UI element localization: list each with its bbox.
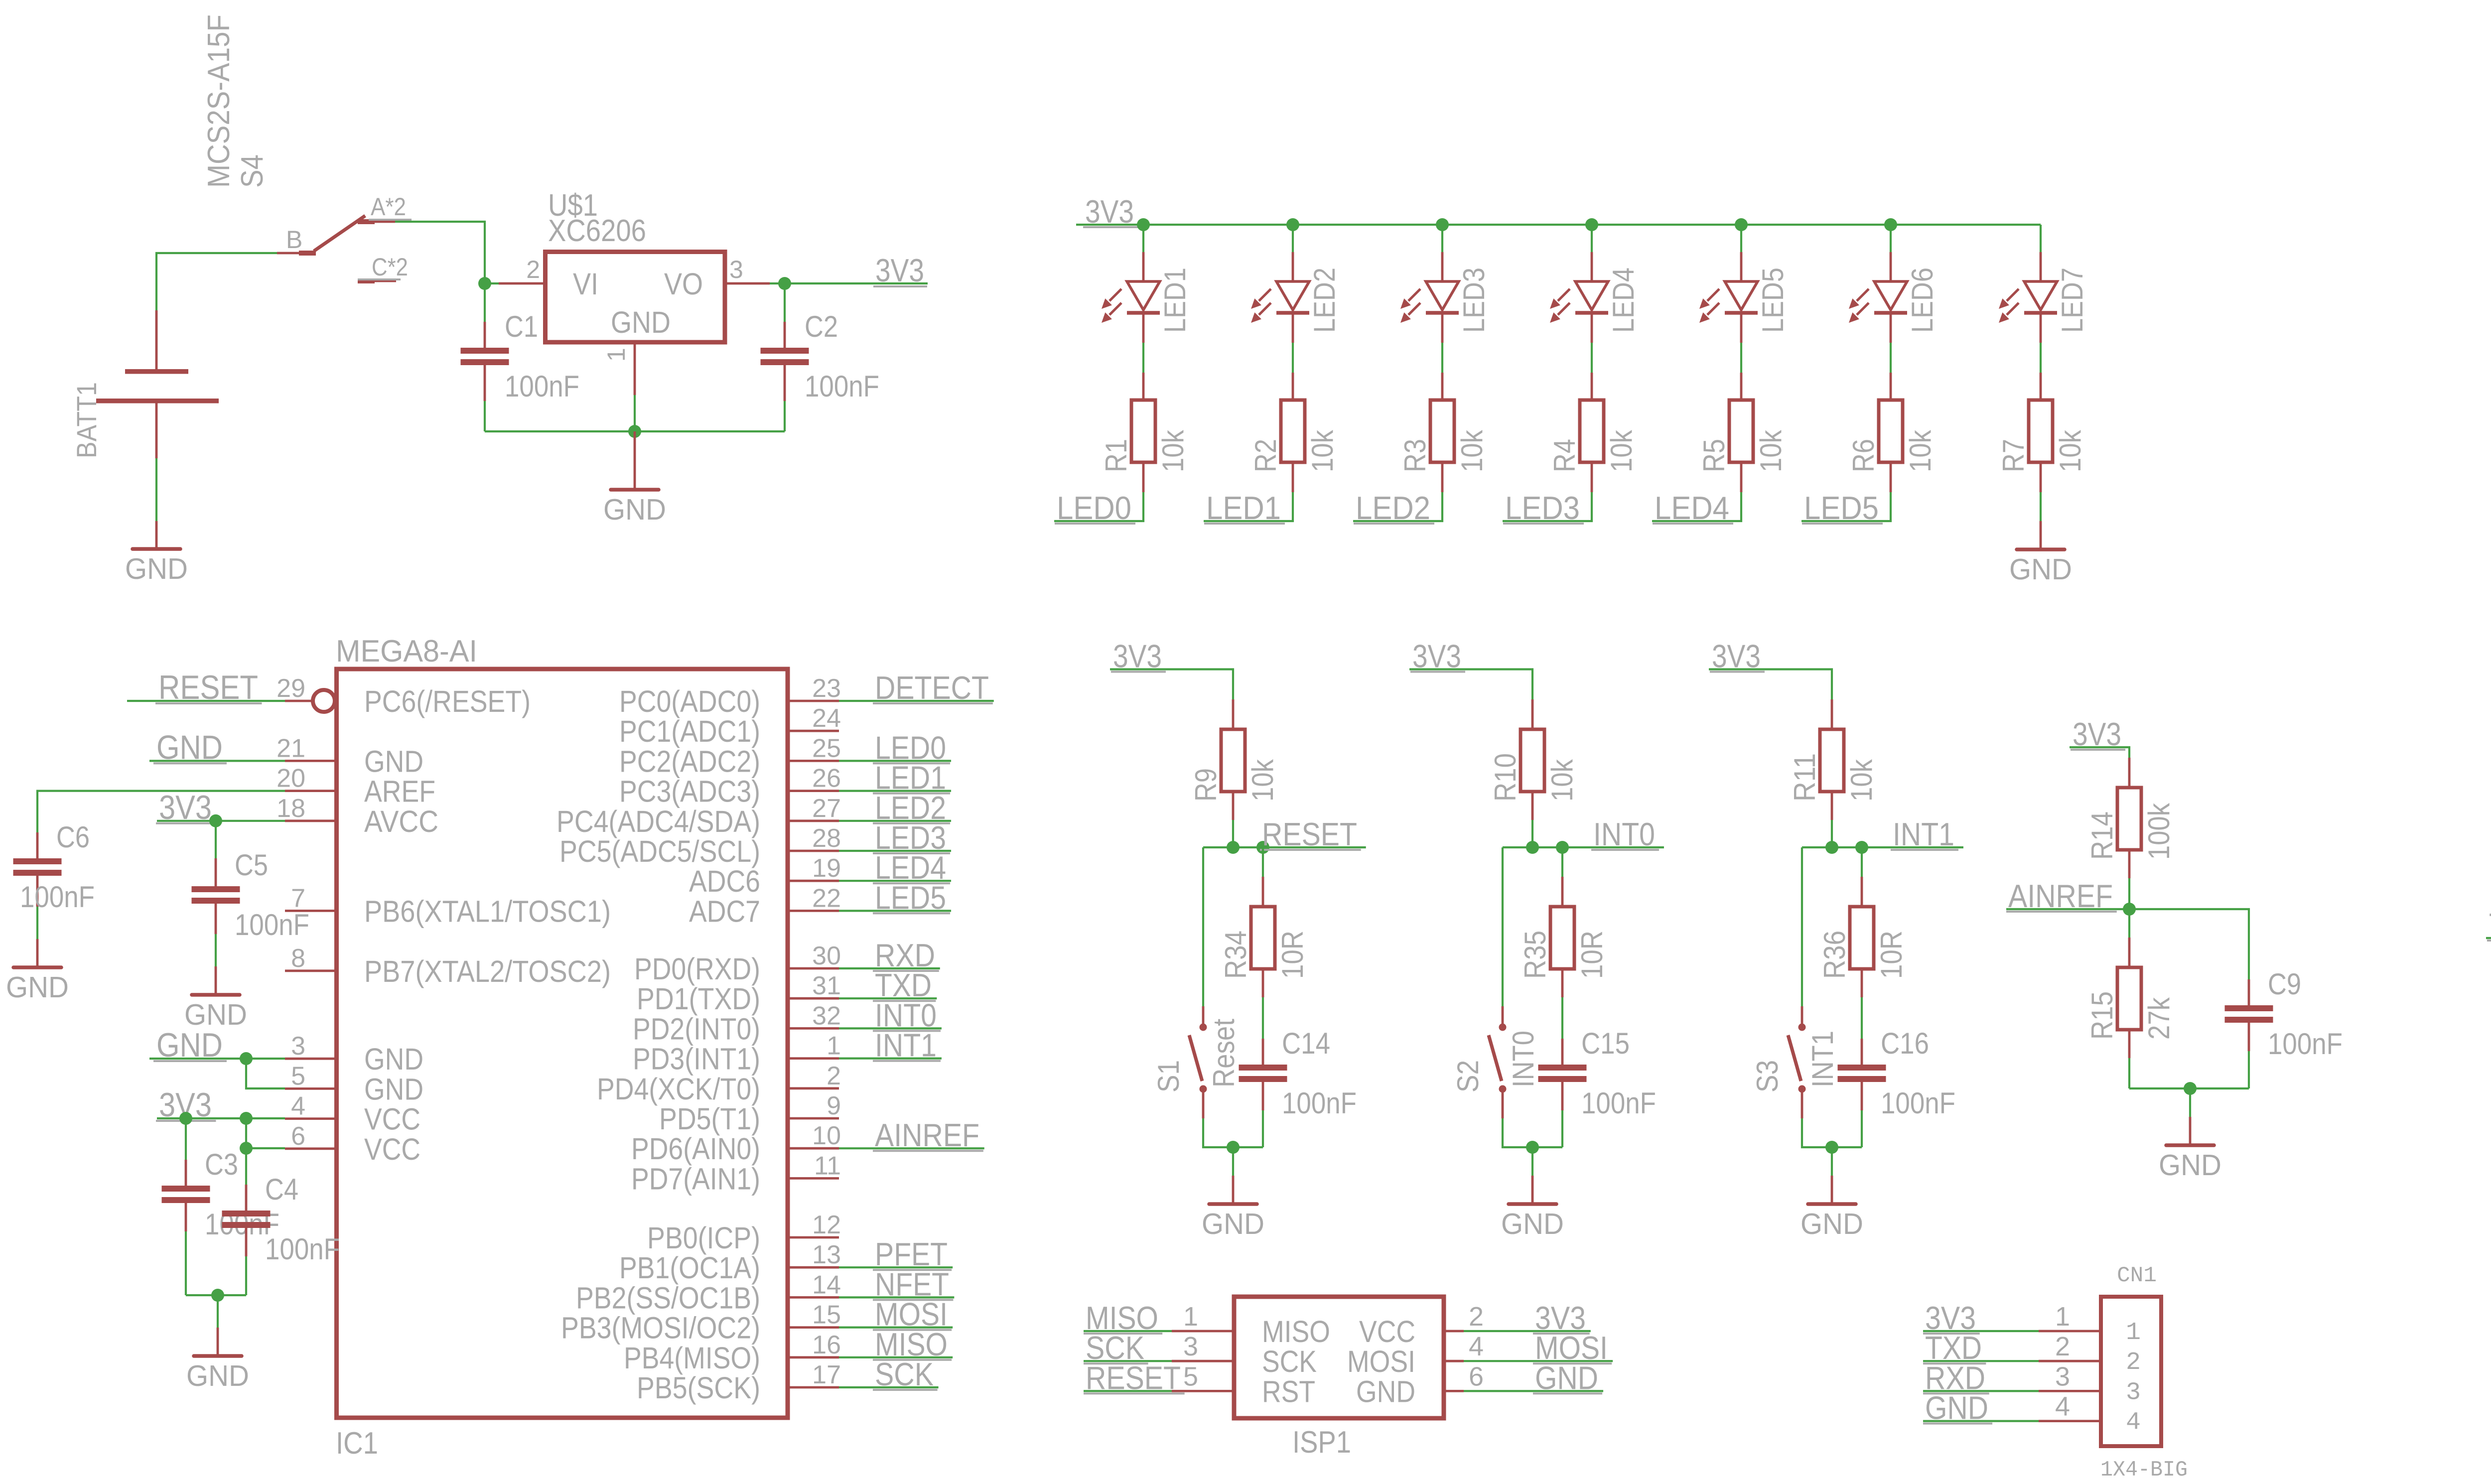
IC1 pin 32 PD2(INT0) (633, 1001, 841, 1046)
svg-text:INT1: INT1 (1806, 1031, 1839, 1087)
net label INT1 (839, 1027, 942, 1064)
wire to pin 5 (246, 1059, 285, 1088)
svg-text:PB7(XTAL2/TOSC2): PB7(XTAL2/TOSC2) (364, 954, 611, 988)
IC1 pin 30 PD0(RXD) (634, 942, 841, 986)
wire rail to ground S1 (1232, 1147, 1234, 1176)
svg-text:PD3(INT1): PD3(INT1) (633, 1042, 760, 1076)
net label LED4 (1653, 490, 1733, 526)
junction rail LED3 (1436, 218, 1449, 231)
svg-text:MCS2S-A15F: MCS2S-A15F (202, 14, 236, 188)
svg-text:C16: C16 (1881, 1027, 1929, 1060)
svg-text:15: 15 (812, 1301, 841, 1330)
wire R1 to net LED0 (1054, 492, 1143, 521)
svg-text:3: 3 (729, 256, 743, 283)
wire C9 to rail (2248, 1051, 2250, 1088)
wire LED2 to R2 (1292, 343, 1294, 373)
svg-text:2: 2 (2126, 1349, 2141, 1377)
wire R10 to node (1531, 820, 1533, 847)
net label LED0 (1055, 490, 1135, 526)
net label THELED left (2486, 907, 2491, 943)
svg-text:11: 11 (814, 1151, 841, 1180)
svg-text:10k: 10k (1904, 429, 1937, 472)
svg-text:R10: R10 (1489, 753, 1522, 802)
battery BATT1 (71, 310, 219, 458)
resistor R5 (1697, 373, 1788, 492)
svg-text:18: 18 (277, 794, 305, 823)
switch S3 (1751, 1006, 1839, 1118)
svg-text:LED3: LED3 (1505, 490, 1580, 526)
ISP1 pin 3 SCK (1172, 1332, 1317, 1378)
svg-text:GND: GND (1501, 1208, 1564, 1240)
IC1 pin 4 VCC (285, 1092, 420, 1136)
svg-text:PD6(AIN0): PD6(AIN0) (631, 1132, 760, 1166)
svg-text:10k: 10k (2054, 429, 2087, 472)
wire 3V3 to R14 (2070, 747, 2129, 758)
resistor R7 (1997, 373, 2087, 492)
net label GND pin21 (149, 728, 285, 766)
junction rail S1 (1227, 1141, 1240, 1154)
svg-text:C14: C14 (1282, 1027, 1330, 1060)
svg-text:C9: C9 (2268, 967, 2301, 1001)
svg-text:VCC: VCC (364, 1132, 420, 1166)
net label 3V3 CN1 (1923, 1300, 2039, 1336)
svg-text:8: 8 (291, 944, 305, 973)
svg-text:3: 3 (2126, 1378, 2141, 1407)
junction VCC C3 (179, 1112, 192, 1125)
svg-text:PD7(AIN1): PD7(AIN1) (631, 1162, 760, 1196)
ground GND C3 C4 (186, 1328, 249, 1392)
IC1 pin 31 PD1(TXD) (637, 971, 841, 1016)
wire rail to LED1 (1142, 225, 1144, 252)
IC1 pin 28 PC5(ADC5/SCL) (559, 824, 841, 868)
resistor R34 (1219, 847, 1309, 997)
svg-text:10k: 10k (1605, 429, 1638, 472)
svg-text:1: 1 (2126, 1319, 2141, 1347)
svg-text:ISP1: ISP1 (1292, 1425, 1351, 1460)
ground GND C6 (6, 939, 69, 1004)
svg-text:AREF: AREF (364, 775, 435, 809)
svg-text:31: 31 (812, 971, 841, 1000)
svg-text:MISO: MISO (1262, 1315, 1330, 1349)
svg-text:LED3: LED3 (1457, 268, 1491, 333)
switch S4 (202, 14, 412, 281)
capacitor C2 (761, 283, 880, 403)
net label AINREF node (2006, 878, 2129, 914)
svg-text:R5: R5 (1697, 439, 1731, 472)
IC1 pin 10 PD6(AIN0) (631, 1121, 841, 1166)
svg-text:CN1: CN1 (2117, 1263, 2157, 1288)
svg-text:GND: GND (1202, 1208, 1264, 1240)
wire switch A to regulator input (395, 222, 485, 283)
resistor R10 (1489, 699, 1579, 820)
resistor R2 (1249, 373, 1339, 492)
svg-text:RST: RST (1262, 1374, 1315, 1408)
capacitor C6 (13, 820, 95, 914)
IC IC1 MEGA8-AI outline (336, 634, 788, 1461)
svg-text:GND: GND (186, 1359, 249, 1392)
svg-text:PC1(ADC1): PC1(ADC1) (619, 714, 760, 748)
svg-text:R11: R11 (1788, 753, 1821, 802)
svg-text:100nF: 100nF (1881, 1086, 1955, 1120)
net label INT1 (1862, 816, 1963, 852)
svg-text:PB3(MOSI/OC2): PB3(MOSI/OC2) (561, 1311, 760, 1345)
net label INT0 (839, 997, 942, 1033)
svg-text:27: 27 (812, 794, 841, 823)
net label AINREF (839, 1117, 984, 1153)
resistor R15 (2085, 909, 2176, 1058)
svg-text:SCK: SCK (875, 1356, 934, 1392)
wire R34 to C14 (1262, 997, 1264, 1039)
wire C6 to ground (36, 907, 38, 939)
wire AREF to C6 (37, 791, 285, 832)
capacitor C1 (461, 310, 580, 403)
LED LED3 (1400, 252, 1491, 343)
ISP1 pin 1 MISO (1172, 1302, 1330, 1349)
svg-text:LED1: LED1 (1158, 268, 1192, 333)
svg-text:LED1: LED1 (1206, 490, 1281, 526)
junction rail S3 (1825, 1141, 1838, 1154)
svg-text:LED0: LED0 (1057, 490, 1131, 526)
wire node to pin 2 (485, 282, 499, 284)
svg-text:29: 29 (277, 674, 305, 703)
svg-text:GND: GND (125, 552, 188, 585)
ground GND S2 (1501, 1176, 1564, 1240)
svg-text:R9: R9 (1189, 768, 1223, 802)
net label GND ISP1 right (1464, 1359, 1603, 1396)
wire rail to ground S3 (1831, 1147, 1833, 1176)
LED LED5 (1699, 252, 1790, 343)
svg-text:24: 24 (812, 704, 841, 733)
svg-text:GND: GND (611, 305, 671, 339)
IC1 pin 26 PC3(ADC3) (619, 764, 841, 809)
svg-text:2: 2 (526, 256, 540, 283)
resistor R3 (1398, 373, 1489, 492)
svg-text:GND: GND (364, 1042, 423, 1076)
resistor R11 (1788, 699, 1878, 820)
svg-text:PD0(RXD): PD0(RXD) (634, 952, 760, 986)
capacitor C5 (192, 821, 310, 942)
svg-text:LED6: LED6 (1906, 268, 1939, 333)
svg-text:INT1: INT1 (1893, 816, 1954, 852)
svg-text:16: 16 (812, 1331, 841, 1359)
pin 3 VO (727, 282, 770, 285)
LED LED4 (1550, 252, 1640, 343)
ground GND LED7 (2009, 521, 2072, 586)
svg-text:14: 14 (812, 1270, 841, 1299)
svg-text:GND: GND (603, 493, 666, 526)
svg-text:12: 12 (812, 1211, 841, 1239)
IC1 pin 3 GND (285, 1032, 423, 1076)
svg-text:2: 2 (827, 1062, 841, 1090)
svg-text:LED4: LED4 (1607, 268, 1640, 333)
pin 2 VI (499, 282, 543, 285)
svg-text:4: 4 (2055, 1392, 2070, 1422)
svg-text:R2: R2 (1249, 439, 1282, 472)
wire C1 to ground rail (484, 401, 486, 431)
svg-text:RESET: RESET (1086, 1359, 1181, 1396)
svg-text:26: 26 (812, 764, 841, 793)
junction GND pins (240, 1052, 253, 1065)
svg-text:10k: 10k (1455, 429, 1489, 472)
svg-text:28: 28 (812, 824, 841, 853)
svg-text:6: 6 (291, 1122, 305, 1151)
svg-text:10R: 10R (1276, 931, 1309, 979)
svg-text:GND: GND (2159, 1149, 2221, 1182)
ground GND AINREF (2159, 1117, 2221, 1182)
wire C2 to rail (784, 401, 786, 431)
wire 3V3 to R11 (1709, 670, 1832, 700)
wire to ground (217, 1295, 219, 1328)
svg-text:32: 32 (812, 1001, 841, 1030)
net label LED5 (839, 879, 951, 916)
wire C14 to rail (1262, 1110, 1264, 1147)
junction rail LED1 (1137, 218, 1150, 231)
wire C4 to rail (245, 1256, 247, 1295)
svg-text:PC5(ADC5/SCL): PC5(ADC5/SCL) (559, 834, 760, 868)
junction AVCC C5 (209, 814, 222, 827)
junction rail S2 (1526, 1141, 1539, 1154)
net label MISO (839, 1326, 953, 1362)
ground GND U$1 (603, 431, 666, 526)
IC1 pin 20 AREF (277, 764, 435, 809)
svg-text:S3: S3 (1751, 1060, 1784, 1092)
wire to pin 6 (246, 1118, 285, 1148)
IC1 pin 23 PC0(ADC0) (619, 674, 841, 718)
net label LED1 (839, 760, 951, 796)
wire LED6 to R6 (1890, 343, 1892, 373)
LED LED2 (1251, 252, 1341, 343)
resistor R36 (1818, 847, 1908, 997)
CN1 pin 2 (2039, 1332, 2141, 1377)
svg-text:C15: C15 (1581, 1027, 1630, 1060)
wire R36 to C16 (1861, 997, 1863, 1039)
wire rail to LED3 (1441, 225, 1443, 252)
junction node INT0 b (1556, 841, 1569, 854)
IC1 pin 17 PB5(SCK) (637, 1360, 841, 1405)
net label 3V3 S1 (1111, 638, 1166, 675)
IC1 pin 11 PD7(AIN1) (631, 1151, 841, 1196)
svg-text:10k: 10k (1156, 429, 1190, 472)
ISP1 pin 6 GND (1356, 1361, 1484, 1408)
svg-text:AINREF: AINREF (875, 1117, 979, 1153)
svg-text:1: 1 (602, 348, 630, 362)
net label MOSI (839, 1296, 953, 1333)
net label SCK ISP1 (1084, 1330, 1172, 1366)
svg-text:R36: R36 (1818, 931, 1851, 979)
svg-text:10k: 10k (1246, 759, 1279, 802)
svg-text:19: 19 (812, 854, 841, 883)
svg-text:R34: R34 (1219, 931, 1252, 979)
net label TXD (839, 967, 937, 1003)
net label GND pin3 (149, 1026, 285, 1064)
junction rail LED6 (1884, 218, 1897, 231)
resistor R14 (2085, 758, 2176, 878)
resistor R35 (1519, 847, 1609, 997)
svg-text:AVCC: AVCC (364, 805, 438, 838)
junction node INT1 b (1855, 841, 1868, 854)
junction node INT1 a (1825, 841, 1838, 854)
svg-text:100nF: 100nF (505, 370, 579, 403)
IC1 pin 12 PB0(ICP) (647, 1211, 841, 1255)
wire R35 to C15 (1561, 997, 1563, 1039)
IC1 pin 8 PB7(XTAL2/TOSC2) (285, 944, 611, 988)
net label 3V3 AINREF divider (2071, 716, 2125, 752)
svg-text:20: 20 (277, 764, 305, 793)
svg-text:C4: C4 (265, 1173, 298, 1206)
wire AINREF to C9 (2129, 909, 2249, 979)
svg-text:LED5: LED5 (1756, 268, 1790, 333)
wire LED4 to R4 (1591, 343, 1593, 373)
svg-text:25: 25 (812, 734, 841, 763)
junction rail LED2 (1286, 218, 1299, 231)
CN1 pin 4 (2039, 1392, 2141, 1437)
svg-text:R7: R7 (1997, 439, 2030, 472)
wire C15 to rail (1561, 1110, 1563, 1147)
ground GND S3 (1800, 1176, 1863, 1240)
svg-text:LED7: LED7 (2056, 268, 2089, 333)
ISP1 pin 4 MOSI (1347, 1332, 1484, 1378)
svg-text:SCK: SCK (1262, 1345, 1317, 1378)
wire C3 C4 ground rail (186, 1294, 246, 1296)
LED LED6 (1849, 252, 1939, 343)
resistor R6 (1847, 373, 1937, 492)
svg-text:GND: GND (156, 1026, 223, 1064)
net label RXD (839, 937, 940, 973)
IC1 pin 14 PB2(SS/OC1B) (576, 1270, 841, 1315)
svg-text:LED5: LED5 (1804, 490, 1879, 526)
wire divider ground rail (2129, 1087, 2249, 1089)
IC1 pin 1 PD3(INT1) (633, 1032, 841, 1076)
junction AINREF (2123, 903, 2136, 916)
net label 3V3 LED rail (1083, 193, 1138, 230)
net label PFET (839, 1236, 953, 1272)
svg-text:PB6(XTAL1/TOSC1): PB6(XTAL1/TOSC1) (364, 894, 611, 928)
svg-text:INT1: INT1 (875, 1027, 937, 1064)
svg-text:INT0: INT0 (1507, 1031, 1540, 1087)
svg-text:2: 2 (2055, 1332, 2070, 1361)
svg-text:2: 2 (1469, 1302, 1484, 1332)
net label RXD CN1 (1923, 1359, 2039, 1396)
junction node INT0 a (1526, 841, 1539, 854)
svg-text:100nF: 100nF (805, 370, 879, 403)
svg-text:13: 13 (812, 1240, 841, 1269)
wire 3V3 to R9 (1110, 670, 1233, 700)
net label LED2 (1354, 490, 1434, 526)
IC1 pin 9 PD5(T1) (659, 1091, 841, 1136)
net label LED2 (839, 790, 951, 826)
IC1 pin 21 GND (277, 734, 423, 778)
wire node to C1 (484, 283, 486, 322)
IC1 pin 5 GND (285, 1062, 423, 1106)
svg-text:PC4(ADC4/SDA): PC4(ADC4/SDA) (556, 805, 760, 838)
svg-text:MEGA8-AI: MEGA8-AI (336, 634, 477, 669)
junction rail LED4 (1585, 218, 1598, 231)
wire LED5 to R5 (1740, 343, 1742, 373)
net label MISO ISP1 (1084, 1300, 1172, 1336)
svg-text:GND: GND (1535, 1359, 1598, 1396)
net label GND CN1 (1923, 1390, 2039, 1426)
wire 3V3 to R10 (1409, 670, 1532, 700)
svg-text:R6: R6 (1847, 439, 1880, 472)
wire R4 to net LED3 (1503, 492, 1592, 521)
net label DETECT (839, 670, 994, 706)
net label LED3 (839, 819, 951, 856)
svg-text:21: 21 (277, 734, 305, 763)
svg-text:10: 10 (812, 1121, 841, 1150)
IC1 pin 29 PC6(/RESET) (277, 674, 531, 718)
svg-text:4: 4 (1469, 1332, 1484, 1361)
junction divider rail (2184, 1082, 2197, 1095)
IC1 pin 22 ADC7 (689, 884, 841, 928)
IC1 pin 7 PB6(XTAL1/TOSC1) (285, 884, 611, 928)
wire R5 to net LED4 (1652, 492, 1741, 521)
svg-text:GND: GND (364, 744, 423, 778)
net label LED0 (839, 729, 951, 766)
svg-text:PB4(MISO): PB4(MISO) (624, 1341, 760, 1375)
junction rail LED5 (1735, 218, 1748, 231)
IC1 pin 24 PC1(ADC1) (619, 704, 841, 748)
junction pin6 column (240, 1142, 253, 1155)
svg-text:23: 23 (812, 674, 841, 703)
wire node row INT0 (1503, 846, 1562, 848)
svg-text:100nF: 100nF (2268, 1027, 2343, 1061)
wire rail to ground S2 (1531, 1147, 1533, 1176)
net label 3V3 AVCC (156, 789, 285, 826)
svg-text:LED2: LED2 (1356, 490, 1430, 526)
svg-text:1: 1 (2055, 1302, 2070, 1332)
svg-text:R3: R3 (1398, 439, 1432, 472)
svg-text:C3: C3 (205, 1148, 238, 1181)
wire switch S1 to rail (1203, 1118, 1263, 1147)
junction ground rail (628, 425, 641, 438)
svg-text:10k: 10k (1754, 429, 1788, 472)
svg-text:PB2(SS/OC1B): PB2(SS/OC1B) (576, 1281, 760, 1315)
net label 3V3 regulator output (873, 252, 927, 288)
capacitor C3 (162, 1118, 280, 1241)
connector CN1 outline (2100, 1263, 2188, 1483)
svg-text:R15: R15 (2085, 991, 2119, 1040)
svg-text:30: 30 (812, 942, 841, 970)
net label SCK (839, 1356, 939, 1392)
svg-text:5: 5 (1183, 1361, 1198, 1391)
net label TXD CN1 (1923, 1330, 2039, 1366)
svg-text:10R: 10R (1575, 931, 1609, 979)
net label INT0 (1562, 816, 1664, 852)
net label RESET (1260, 816, 1366, 852)
svg-text:3V3: 3V3 (159, 789, 212, 826)
svg-text:THELED: THELED (2489, 907, 2491, 943)
svg-text:1X4-BIG: 1X4-BIG (2100, 1458, 2188, 1483)
svg-text:5: 5 (291, 1062, 305, 1090)
svg-text:XC6206: XC6206 (548, 214, 646, 248)
resistor R1 (1100, 373, 1190, 492)
svg-text:3: 3 (2055, 1361, 2070, 1391)
ground GND battery (125, 521, 188, 585)
svg-text:GND: GND (6, 971, 69, 1004)
wire LED1 to R1 (1142, 343, 1144, 373)
svg-text:PD2(INT0): PD2(INT0) (633, 1012, 760, 1046)
wire node row RESET (1203, 846, 1263, 848)
net label LED3 (1503, 490, 1584, 526)
IC1 pin 2 PD4(XCK/T0) (597, 1062, 841, 1106)
svg-text:10R: 10R (1875, 931, 1908, 979)
ISP1 pin 5 RST (1172, 1361, 1315, 1408)
svg-text:6: 6 (1469, 1361, 1484, 1391)
wire node to switch S2 (1502, 847, 1504, 1006)
svg-text:IC1: IC1 (336, 1426, 378, 1461)
wire ground rail U$1 (485, 430, 785, 432)
wire battery to ground (155, 458, 157, 521)
